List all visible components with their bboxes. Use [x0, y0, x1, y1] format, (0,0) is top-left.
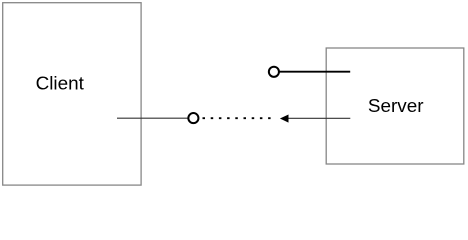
wire: provided-interface line into server: [279, 71, 350, 73]
wire: dotted dependency line: [203, 117, 274, 119]
interface lollipop circle: [269, 67, 279, 77]
server box: [326, 48, 464, 164]
wire: solid line from client to socket circle: [117, 117, 188, 119]
svg-text:Client: Client: [36, 73, 85, 94]
arrowhead pointing left: [280, 115, 289, 123]
socket circle: [188, 113, 198, 123]
wire: thin line from arrow into server: [287, 117, 350, 119]
client box: [3, 3, 141, 185]
svg-text:Server: Server: [368, 96, 424, 117]
